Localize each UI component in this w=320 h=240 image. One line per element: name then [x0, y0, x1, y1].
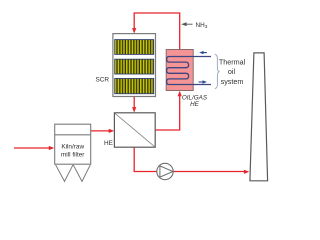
svg-text:system: system [221, 77, 244, 86]
SCR reactor [113, 34, 156, 97]
catalyst layer 2 [115, 59, 154, 74]
NH3 injection arrow [186, 23, 193, 25]
OIL/GAS heat exchanger [166, 50, 193, 91]
wire: filter to HE [91, 130, 110, 132]
catalyst layer 1 [115, 40, 154, 55]
wire: fan to stack [173, 171, 244, 173]
svg-text:mill filter: mill filter [61, 152, 85, 159]
svg-text:oil: oil [228, 67, 236, 76]
svg-text:SCR: SCR [96, 77, 110, 84]
wire: HE bottom to fan [134, 147, 157, 171]
HE diagonal [115, 113, 155, 146]
thermal oil inlet arrow [203, 52, 207, 54]
thermal oil outlet arrow [199, 81, 203, 83]
HE box [114, 113, 155, 147]
fan [157, 163, 173, 179]
svg-text:HE: HE [190, 101, 200, 108]
catalyst layer 3 [115, 79, 154, 94]
wire: SCR bottom to HE top [133, 97, 135, 109]
wire: HE right up to OIL/GAS HE bottom [155, 96, 180, 130]
svg-text:NH3: NH3 [196, 22, 208, 30]
thermal oil coil [167, 57, 211, 85]
svg-text:HE: HE [104, 140, 113, 147]
wire: OIL/GAS HE top over to SCR top [134, 13, 180, 50]
svg-text:Kiln/raw: Kiln/raw [61, 144, 84, 151]
wire: flue gas inlet to filter [14, 147, 50, 149]
svg-text:Thermal: Thermal [219, 58, 246, 67]
kiln/raw mill filter [55, 124, 91, 164]
stack [250, 53, 268, 181]
brace for thermal oil system [215, 54, 220, 88]
